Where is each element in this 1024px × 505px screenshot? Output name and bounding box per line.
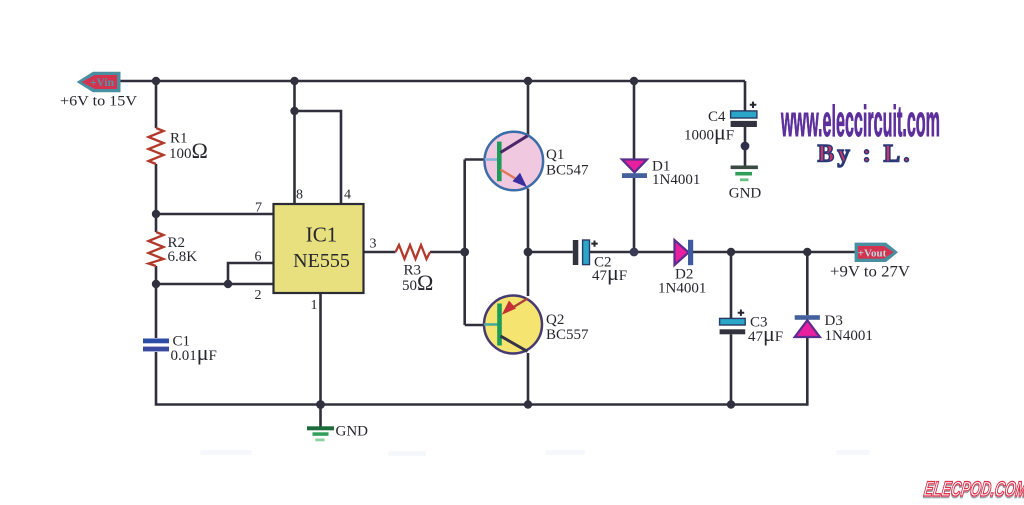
svg-text:3: 3 [370, 237, 377, 252]
watermark By : L. [818, 141, 913, 168]
IC U1 NE555 [274, 204, 364, 293]
capacitor C2 [573, 240, 627, 285]
pin 8 label [296, 188, 303, 203]
wire pin 2 [156, 283, 274, 286]
node R2 bottom [152, 280, 160, 288]
node C3 top [727, 248, 735, 256]
svg-text:BC547: BC547 [546, 163, 589, 179]
svg-text:R1: R1 [170, 131, 188, 147]
svg-text:6.8K: 6.8K [168, 249, 198, 265]
wire pin 6 [228, 263, 274, 284]
pin 4 label [344, 188, 351, 203]
svg-text:1N4001: 1N4001 [825, 328, 873, 344]
wire base column [465, 160, 486, 326]
watermark ELECPOD.COM [922, 478, 1024, 502]
wire pin 8 column [293, 81, 296, 204]
wire C2 to D2 [590, 251, 675, 254]
svg-text:2: 2 [255, 288, 262, 303]
wire Q1 collector [527, 81, 530, 135]
wire D2 to Vout [693, 251, 855, 254]
node C4 gnd [741, 142, 750, 151]
watermark www.eleccircuit.com [781, 97, 940, 146]
wire top rail [120, 80, 745, 83]
resistor R2 [149, 232, 198, 266]
diode D2 [658, 240, 706, 297]
svg-text:D3: D3 [825, 313, 843, 329]
wire D3 column [806, 252, 809, 406]
ground near C4 [729, 166, 762, 202]
svg-text:+9V to 27V: +9V to 27V [830, 264, 910, 281]
pin 6 label [255, 250, 262, 265]
resistor R3 [396, 245, 434, 295]
diode D3 [795, 313, 873, 344]
svg-text:+6V to 15V: +6V to 15V [60, 94, 137, 110]
svg-text:ELECPOD.COM: ELECPOD.COM [923, 478, 1024, 501]
svg-text:1N4001: 1N4001 [652, 172, 700, 188]
svg-text:8: 8 [296, 188, 303, 203]
terminal +Vin [60, 72, 137, 110]
wire pin 7 [156, 213, 274, 216]
wire C3 column [730, 252, 733, 405]
node D1 top [630, 77, 638, 85]
capacitor C4 [684, 102, 757, 145]
svg-text:IC1: IC1 [306, 223, 338, 247]
node pin8 top [290, 77, 298, 85]
node pin4 branch [290, 107, 298, 115]
wire pin 3 output [364, 251, 465, 254]
svg-text:6: 6 [255, 250, 262, 265]
wire Q1 emitter to Q2 emitter [527, 189, 530, 297]
wire pin 4 branch [295, 111, 342, 204]
svg-text:7: 7 [255, 201, 262, 216]
wire D1 column [633, 81, 636, 252]
svg-text:Q1: Q1 [546, 147, 564, 163]
smudge marks [200, 450, 870, 456]
svg-text:BC557: BC557 [546, 327, 589, 343]
node pin1 gnd [316, 400, 325, 409]
svg-text:GND: GND [336, 424, 369, 440]
ground near pin 1 [307, 424, 368, 442]
terminal +Vout [830, 243, 910, 281]
transistor Q2 BC557 [484, 296, 589, 354]
node top-left [152, 77, 160, 85]
wire Q2 collector [527, 353, 530, 405]
svg-text:NE555: NE555 [293, 250, 350, 272]
pin 3 label [370, 237, 377, 252]
svg-text:+Vout: +Vout [858, 247, 887, 259]
svg-text:C1: C1 [173, 333, 191, 349]
node pin7 left [152, 210, 160, 218]
wire pin 1 column [319, 293, 322, 427]
node base column [460, 248, 469, 257]
capacitor C3 [720, 310, 784, 347]
svg-text:+Vin: +Vin [90, 77, 115, 89]
resistor R1 [149, 128, 208, 164]
svg-text:By : L.: By : L. [818, 141, 913, 168]
wire C4 column [744, 81, 747, 166]
node pin6 branch [224, 280, 232, 288]
svg-text:Q2: Q2 [546, 312, 564, 328]
node emitter [524, 248, 533, 257]
pin 2 label [255, 288, 262, 303]
wire emitter node to C2 [528, 251, 573, 254]
node Q2 collector bottom [524, 400, 532, 408]
pin 7 label [255, 201, 262, 216]
svg-text:www.eleccircuit.com: www.eleccircuit.com [781, 97, 940, 146]
node D1 bottom [630, 248, 639, 257]
node C3 bottom [727, 400, 735, 408]
wire left column [155, 81, 807, 406]
svg-text:4: 4 [344, 188, 351, 203]
node D3 top [803, 248, 811, 256]
pin 1 label [311, 298, 318, 313]
diode D1 [622, 159, 700, 188]
svg-text:GND: GND [729, 186, 762, 202]
node Q1 collector top [524, 77, 532, 85]
svg-text:1: 1 [311, 298, 318, 313]
svg-text:1N4001: 1N4001 [658, 281, 706, 297]
capacitor C1 [143, 333, 217, 365]
transistor Q1 BC547 [485, 132, 590, 191]
